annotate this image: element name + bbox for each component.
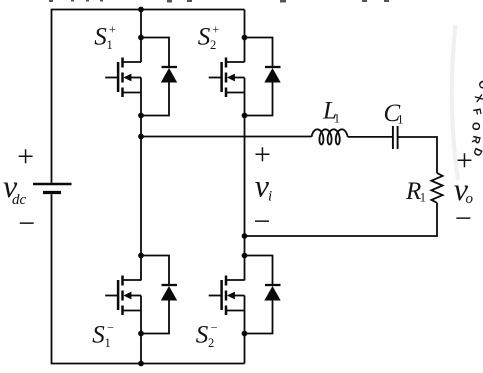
svg-text:−: − — [455, 202, 472, 235]
svg-text:O: O — [469, 122, 481, 131]
svg-text:S: S — [92, 321, 105, 348]
svg-text:−: − — [107, 320, 114, 334]
svg-text:i: i — [268, 188, 272, 204]
svg-text:1: 1 — [107, 38, 113, 52]
svg-text:−: − — [253, 205, 270, 238]
svg-text:1: 1 — [334, 111, 340, 125]
svg-text:2: 2 — [208, 336, 214, 350]
svg-text:S: S — [196, 321, 209, 348]
svg-text:1: 1 — [420, 191, 426, 205]
svg-text:S: S — [198, 23, 211, 50]
svg-text:+: + — [212, 22, 219, 36]
svg-text:+: + — [17, 140, 34, 173]
svg-text:2: 2 — [210, 38, 216, 52]
svg-text:1: 1 — [105, 336, 111, 350]
svg-text:+: + — [456, 144, 473, 177]
svg-text:+: + — [254, 138, 271, 171]
svg-text:−: − — [211, 320, 218, 334]
svg-text:1: 1 — [397, 113, 403, 127]
svg-text:+: + — [109, 22, 116, 36]
svg-text:dc: dc — [12, 192, 27, 208]
svg-text:S: S — [94, 23, 107, 50]
svg-text:−: − — [18, 207, 35, 240]
